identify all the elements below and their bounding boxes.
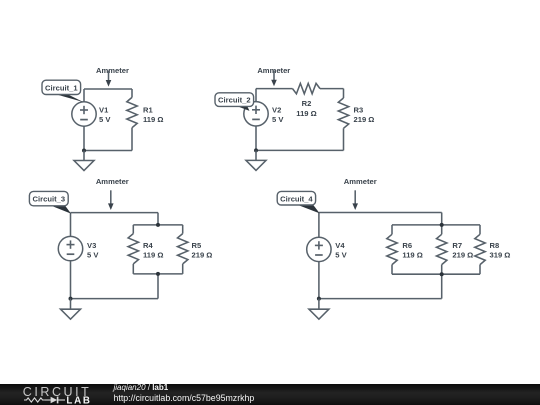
svg-text:Circuit_3: Circuit_3 [33,194,66,203]
svg-text:LAB: LAB [66,396,91,405]
svg-text:219 Ω: 219 Ω [192,251,213,260]
svg-text:R8: R8 [490,241,500,250]
svg-text:5 V: 5 V [99,115,111,124]
svg-text:V1: V1 [99,105,109,114]
svg-text:319 Ω: 319 Ω [490,251,511,260]
svg-text:Ammeter: Ammeter [96,66,129,75]
svg-text:V3: V3 [87,241,96,250]
svg-text:R1: R1 [143,105,153,114]
svg-text:V4: V4 [335,241,345,250]
svg-text:R2: R2 [302,99,312,108]
svg-text:219 Ω: 219 Ω [354,115,375,124]
svg-text:5 V: 5 V [335,251,347,260]
svg-text:5 V: 5 V [87,251,99,260]
svg-text:Circuit_4: Circuit_4 [280,194,313,203]
svg-text:Circuit_1: Circuit_1 [45,83,78,92]
svg-text:R5: R5 [192,241,202,250]
svg-text:219 Ω: 219 Ω [452,251,473,260]
svg-text:Ammeter: Ammeter [344,177,377,186]
svg-text:R6: R6 [402,241,412,250]
svg-text:119 Ω: 119 Ω [402,251,422,260]
svg-text:119 Ω: 119 Ω [143,251,163,260]
svg-text:R7: R7 [452,241,462,250]
svg-text:V2: V2 [272,105,281,114]
svg-text:R3: R3 [354,105,364,114]
svg-text:Circuit_2: Circuit_2 [218,96,251,105]
svg-text:R4: R4 [143,241,153,250]
svg-text:5 V: 5 V [272,115,284,124]
svg-text:Ammeter: Ammeter [96,177,129,186]
svg-text:119 Ω: 119 Ω [296,109,316,118]
svg-text:119 Ω: 119 Ω [143,115,163,124]
